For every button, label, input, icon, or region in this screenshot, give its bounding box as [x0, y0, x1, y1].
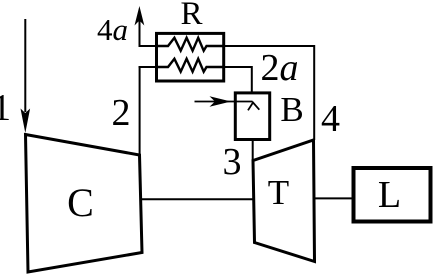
wire: inlet stream 1 shaft [24, 19, 26, 112]
regenerator top tube zigzag [157, 38, 224, 51]
wire: shaft turbine to load [314, 197, 352, 199]
wire: compressor outlet up, stream 2 [139, 66, 141, 156]
arrowhead stream 4a [135, 6, 145, 26]
wire: regenerator bottom tube right lead, stream 2a to burner [224, 67, 252, 92]
svg-text:3: 3 [223, 141, 242, 183]
wire: exhaust stream 4a up [139, 20, 141, 47]
svg-text:B: B [280, 90, 303, 129]
svg-text:T: T [268, 173, 289, 212]
svg-text:R: R [180, 0, 202, 32]
wire: regenerator top tube right lead to stream 4 [224, 46, 314, 140]
svg-text:4: 4 [321, 98, 340, 140]
wire: burner to turbine, stream 3 [252, 140, 254, 162]
turbine T [253, 140, 315, 262]
arrowhead fuel [210, 96, 232, 106]
burner B box [235, 93, 269, 140]
arrowhead stream 1 [21, 109, 31, 134]
svg-text:C: C [67, 180, 94, 225]
wire: shaft compressor to turbine [141, 198, 254, 200]
wire: fuel line into burner [195, 101, 253, 103]
wire: regenerator bottom tube left lead [139, 66, 157, 68]
svg-text:L: L [378, 174, 401, 216]
burner flame caret [248, 103, 259, 111]
compressor C [26, 135, 143, 273]
svg-text:2a: 2a [261, 47, 299, 89]
svg-text:2: 2 [112, 92, 131, 134]
svg-text:1: 1 [0, 87, 11, 129]
regenerator R box [157, 33, 224, 81]
regenerator bottom tube zigzag [157, 59, 224, 72]
svg-text:4a: 4a [97, 12, 128, 47]
load L box [354, 168, 431, 222]
wire: regenerator top tube left lead [139, 45, 157, 47]
